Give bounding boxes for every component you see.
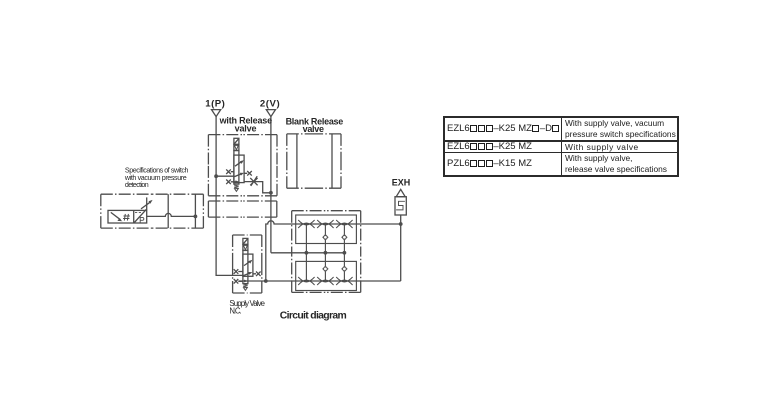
- supply valve spring: [243, 284, 248, 287]
- supply valve solenoid: [243, 238, 248, 244]
- wire supply riser with hop over V line: [266, 221, 401, 281]
- release valve port X right: [244, 171, 252, 176]
- junction exhaust: [399, 222, 403, 226]
- junction vacuum column 3: [343, 251, 347, 255]
- release valve pilot: [234, 144, 239, 150]
- supply valve port X left 1: [234, 269, 243, 274]
- blank release valve right wall: [331, 134, 333, 188]
- ejector bottom stage box: [296, 261, 357, 290]
- pressure switch tick marks: [135, 211, 141, 213]
- label Specifications of switch: [124, 167, 189, 190]
- label Circuit diagram: [280, 310, 347, 321]
- ejector column 3: [343, 224, 345, 281]
- pressure switch contact diagonal: [111, 212, 121, 219]
- junction vacuum column 1: [305, 251, 309, 255]
- pressure switch P cell diagonal: [134, 209, 147, 223]
- label Blank Release valve: [286, 116, 344, 134]
- label EXH: [392, 178, 411, 188]
- wire supply to bottom ejector row: [239, 280, 401, 282]
- supply valve flow arrow lower: [243, 273, 250, 276]
- switch unit wall 2: [194, 194, 196, 228]
- release valve solenoid: [234, 138, 239, 144]
- pressure switch # symbol: [123, 214, 130, 221]
- wire P supply line: [216, 117, 243, 276]
- label with Release valve: [219, 116, 273, 134]
- check valve top 2: [322, 234, 328, 241]
- ejector column 2: [324, 224, 326, 281]
- junction release-out on V line: [269, 191, 273, 195]
- ejector outer dash-dot box: [292, 211, 361, 293]
- supply valve port X left 2: [234, 279, 243, 284]
- svg-text:EXH: EXH: [392, 178, 411, 188]
- svg-text:valve: valve: [235, 124, 257, 134]
- blank release valve dash-dot box: [287, 134, 341, 188]
- release valve spool column: [234, 151, 239, 185]
- ejector nozzle top 3: [336, 220, 352, 228]
- release valve plugged X on outlet: [250, 176, 257, 186]
- release valve flow arrow lower: [235, 174, 242, 177]
- ejector top stage box: [296, 215, 357, 244]
- pressure switch stem: [146, 197, 148, 210]
- pressure switch adjust arrow: [141, 202, 150, 209]
- ejector nozzle bottom 3: [336, 277, 352, 285]
- junction vacuum column 2: [324, 251, 328, 255]
- ejector nozzle top 1: [298, 220, 314, 228]
- silencer baffle: [396, 201, 405, 210]
- port label 1(P): [205, 98, 225, 109]
- wire release valve outlet: [244, 182, 271, 193]
- pressure switch P label: [140, 217, 144, 222]
- release valve arrow at lower port: [235, 180, 239, 183]
- release valve body: [234, 155, 244, 183]
- svg-text:detection: detection: [125, 181, 149, 189]
- release valve port X left 2: [226, 180, 236, 185]
- wire exhaust loop: [400, 215, 402, 281]
- silencer triangle: [396, 189, 405, 196]
- specification table: [443, 116, 679, 177]
- supply valve body: [243, 254, 253, 276]
- check valve bottom 2: [322, 266, 328, 273]
- supply valve pilot: [243, 244, 248, 250]
- svg-text:1(P): 1(P): [205, 98, 225, 109]
- ejector nozzle bottom 1: [298, 277, 314, 285]
- label Supply Valve N.C.: [229, 299, 265, 316]
- port label 2(V): [260, 98, 280, 109]
- junction supply riser: [264, 279, 268, 283]
- switch unit dash-dot box: [101, 194, 204, 228]
- release valve flow arrow upper: [235, 161, 242, 166]
- release valve dash-dot box: [208, 135, 277, 196]
- supply valve return triangle: [244, 288, 248, 291]
- ejector nozzle top 2: [317, 220, 333, 228]
- blank release valve left wall: [296, 134, 298, 188]
- check valve bottom 3: [341, 266, 347, 273]
- wire vacuum manifold line: [271, 252, 345, 254]
- junction P-branch: [214, 174, 218, 178]
- silencer body: [395, 197, 406, 215]
- check valve top 3: [341, 234, 347, 241]
- supply valve arrow at outlet: [244, 280, 248, 283]
- junction switch output: [194, 215, 198, 219]
- switch unit wall 1: [167, 194, 169, 228]
- supply valve port X right: [253, 272, 261, 277]
- release valve return triangle: [235, 189, 239, 192]
- svg-text:Circuit diagram: Circuit diagram: [280, 310, 347, 321]
- pressure switch body: [108, 210, 147, 223]
- svg-text:2(V): 2(V): [260, 98, 280, 109]
- wire V line: [270, 117, 272, 253]
- supply valve dash-dot box: [233, 235, 262, 293]
- ejector nozzle bottom 2: [317, 277, 333, 285]
- port triangle 1(P): [212, 110, 221, 117]
- supply valve spool column: [243, 250, 248, 283]
- svg-text:N.C.: N.C.: [229, 307, 241, 316]
- ejector column 1: [305, 224, 307, 281]
- interface dash-dot box: [208, 201, 276, 217]
- port triangle 2(V): [266, 110, 275, 117]
- wire switch output with hop: [147, 213, 196, 216]
- supply valve flow arrow upper: [244, 261, 251, 266]
- release valve spring: [234, 185, 239, 188]
- svg-text:valve: valve: [303, 124, 324, 134]
- pressure switch divider: [133, 210, 135, 223]
- release valve port X left 1: [226, 169, 234, 174]
- wire P to release valve: [216, 175, 234, 177]
